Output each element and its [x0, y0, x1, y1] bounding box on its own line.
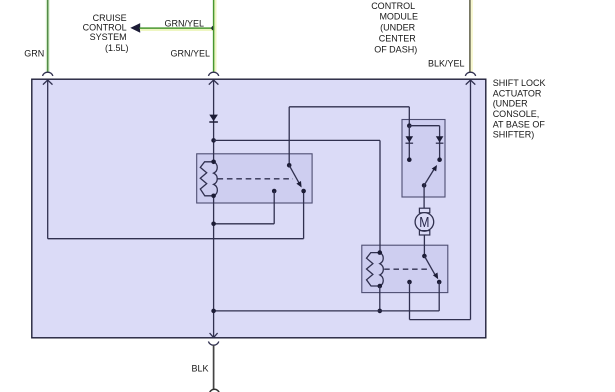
relay K2 switch pivot dot	[422, 254, 427, 259]
svg-text:BLK/YEL: BLK/YEL	[428, 59, 465, 69]
relay K1 coil inductor arcs	[214, 162, 218, 196]
connector arc BLK/YEL entry	[465, 72, 475, 76]
diode D2 contact dot	[407, 157, 412, 162]
svg-text:GRN/YEL: GRN/YEL	[164, 18, 204, 28]
wire to K2 coil horizontal	[214, 139, 380, 141]
wire terminal to BLK/YEL	[410, 319, 471, 321]
diode box switch arrowhead	[432, 165, 437, 171]
relay K1 switch pivot dot	[287, 163, 292, 168]
relay K1 contact dot	[301, 189, 306, 194]
wire switch to motor	[423, 185, 425, 208]
svg-text:M: M	[419, 215, 429, 231]
diode box	[402, 120, 445, 198]
connector arc GRN/YEL entry	[208, 72, 218, 76]
wire GRN	[46, 0, 50, 72]
diode D2	[406, 136, 414, 142]
relay K2 switch arm	[424, 256, 434, 274]
wire K1 pivot feed horizontal	[289, 106, 409, 108]
motor M top terminal	[419, 208, 429, 213]
relay K2 terminal dot	[407, 280, 412, 285]
wire motor to relay K2 pivot	[423, 235, 425, 256]
wire K1 terminal drop	[273, 191, 275, 224]
svg-text:OF DASH): OF DASH)	[374, 44, 417, 54]
relay K1 coil resistor zigzag	[200, 162, 213, 196]
wire K2 contact riser	[438, 282, 440, 311]
svg-text:BLK: BLK	[192, 364, 209, 374]
wire right diode branch	[439, 126, 441, 160]
relay K1 terminal dot	[272, 189, 277, 194]
main box: shift lock actuator	[32, 79, 486, 338]
relay K2 coil resistor zigzag	[367, 253, 380, 286]
diode box switch arm	[424, 170, 434, 186]
junction dot main y223.8	[211, 222, 216, 227]
relay K2 contact dot	[437, 280, 442, 285]
svg-text:(UNDER: (UNDER	[493, 99, 528, 109]
wire K2 terminal drop	[409, 282, 411, 320]
arrow to cruise control system	[130, 23, 140, 33]
connector arc GRN entry	[43, 72, 53, 76]
wire left diode branch	[408, 126, 410, 160]
relay K1 box	[197, 154, 312, 203]
svg-text:SHIFTER): SHIFTER)	[493, 130, 535, 140]
relay K2 coil top dot	[378, 250, 383, 255]
wire main GRN/YEL vertical lower	[213, 196, 215, 337]
wire GRN inside left vertical	[47, 80, 49, 239]
wire lower horizontal to K1 contact	[48, 238, 304, 240]
relay K1 switch arm	[289, 165, 299, 184]
wire GRN/YEL vertical	[214, 0, 216, 72]
relay K2 coil bottom dot	[378, 284, 383, 289]
wire to K2 coil vertical	[379, 140, 381, 252]
svg-text:AT BASE OF: AT BASE OF	[493, 119, 546, 129]
junction dot GRN/YEL	[211, 26, 216, 31]
motor M bottom terminal	[419, 231, 429, 235]
exit arrow BLK	[210, 333, 218, 338]
wire K2 coil bottom drop	[379, 286, 381, 311]
diode D3 contact dot	[437, 157, 442, 162]
relay K1 switch arrowhead	[296, 181, 301, 188]
relay K2 coil inductor arcs	[380, 253, 384, 286]
diode box entry dot	[407, 123, 412, 128]
relay K1 dashed actuation line	[218, 178, 294, 180]
svg-text:GRN: GRN	[24, 48, 44, 58]
svg-text:CONSOLE,: CONSOLE,	[493, 109, 540, 119]
diode D1	[209, 115, 218, 122]
svg-text:CONTROL: CONTROL	[83, 23, 127, 33]
relay K2 box	[362, 245, 448, 292]
svg-text:CENTER: CENTER	[379, 34, 417, 44]
relay K2 dashed actuation line	[384, 268, 427, 270]
wire bottom bus	[214, 310, 440, 312]
relay K1 coil bottom dot	[211, 194, 216, 199]
svg-text:CRUISE: CRUISE	[93, 13, 127, 23]
diode box switch pivot dot	[422, 183, 427, 188]
svg-text:(1.5L): (1.5L)	[105, 43, 129, 53]
svg-text:CONTROL: CONTROL	[371, 1, 415, 11]
svg-text:SYSTEM: SYSTEM	[90, 32, 127, 42]
svg-text:GRN/YEL: GRN/YEL	[170, 49, 210, 59]
entry arrow GRN	[43, 80, 53, 85]
junction dot main/bus	[211, 309, 216, 314]
svg-text:MODULE: MODULE	[379, 12, 418, 22]
relay K1 coil top dot	[211, 160, 216, 165]
wire K1 pivot feed vertical	[288, 107, 290, 166]
wire GRN/YEL horizontal	[140, 29, 214, 31]
wire main GRN/YEL vertical upper	[213, 80, 215, 162]
entry arrow BLK/YEL	[466, 80, 476, 85]
diode D3	[436, 136, 444, 142]
svg-text:SHIFT LOCK: SHIFT LOCK	[493, 78, 546, 88]
wire BLK/YEL	[470, 0, 473, 72]
wire K1 terminal to main	[214, 223, 275, 225]
junction dot main/K2-coil feed	[211, 138, 216, 143]
entry arrow GRN/YEL	[209, 80, 219, 85]
wire BLK	[213, 345, 215, 389]
motor M body	[415, 213, 434, 232]
relay K2 switch arrowhead	[433, 273, 438, 280]
wire K1 contact riser	[303, 191, 305, 239]
wire BLK/YEL inside vertical	[470, 80, 472, 320]
wire diode box top	[409, 125, 439, 127]
connector arc BLK exit	[208, 342, 218, 346]
wire diode-box entry drop	[408, 107, 410, 126]
junction dot bus/K2 coil	[378, 309, 383, 314]
svg-text:ACTUATOR: ACTUATOR	[493, 88, 542, 98]
svg-text:(UNDER: (UNDER	[380, 23, 415, 33]
connector circle ground	[209, 389, 219, 392]
